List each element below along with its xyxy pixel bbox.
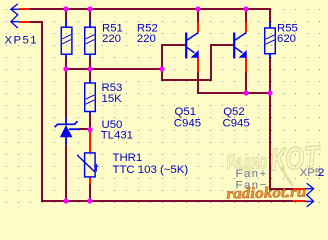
grid dots bbox=[6, 9, 320, 203]
wire Q52 base riser bbox=[210, 44, 212, 81]
wire lower base link bbox=[162, 79, 212, 81]
wire Q52 collector drop bbox=[245, 9, 247, 22]
svg-text:15K: 15K bbox=[102, 93, 123, 105]
wire U50 ref to node B bbox=[79, 128, 92, 130]
wire R51 top drop bbox=[65, 9, 67, 20]
wire XP51 pin2 to ground bbox=[30, 21, 42, 202]
svg-text:КОТ: КОТ bbox=[269, 139, 323, 178]
transistor Q52 bbox=[234, 33, 246, 59]
node rail-Q52c bbox=[243, 6, 248, 11]
svg-text:Радио: Радио bbox=[226, 150, 267, 174]
node gnd U50 bbox=[63, 198, 68, 203]
node emitter R55 bbox=[267, 90, 272, 95]
thermistor THR1 bbox=[77, 153, 98, 177]
wire U50 cathode top bbox=[65, 69, 67, 117]
svg-text:XP51: XP51 bbox=[5, 35, 38, 47]
wire R55 top drop bbox=[269, 8, 271, 22]
svg-text:Q52: Q52 bbox=[223, 106, 245, 118]
node rail-Q51c bbox=[195, 6, 200, 11]
svg-text:C945: C945 bbox=[223, 117, 250, 129]
wire emitter bus bbox=[197, 92, 271, 94]
pin stub Q51 emitter bbox=[197, 58, 199, 72]
wire top rail +12V bbox=[30, 8, 270, 10]
wire R55 bottom bbox=[269, 57, 271, 93]
svg-text:220: 220 bbox=[137, 33, 156, 45]
node A R51 bbox=[63, 66, 68, 71]
resistor R52 bbox=[85, 20, 96, 58]
pin stub XP51 pin1 bbox=[19, 8, 30, 10]
svg-text:THR1: THR1 bbox=[113, 152, 143, 164]
resistor R53 bbox=[85, 79, 96, 114]
svg-text:Q51: Q51 bbox=[175, 106, 197, 118]
svg-text:TL431: TL431 bbox=[101, 130, 133, 142]
wire Q51 collector drop bbox=[197, 9, 199, 22]
wire node A horizontal bbox=[65, 68, 163, 70]
node rail-R52 bbox=[87, 6, 92, 11]
svg-text:R53: R53 bbox=[102, 82, 123, 94]
node junction dots bbox=[63, 6, 272, 203]
wire Q52 emitter down bbox=[245, 72, 247, 94]
node A riser bbox=[159, 66, 164, 71]
node gnd THR1 bbox=[87, 198, 92, 203]
wire base riser bbox=[161, 44, 163, 81]
wire Fan+ drop bbox=[269, 92, 271, 190]
node B ref bbox=[87, 127, 92, 132]
pin stub Q52 emitter bbox=[245, 58, 247, 72]
resistor R51 bbox=[61, 20, 72, 58]
wire R52 bottom bbox=[89, 57, 91, 70]
pin stub XP52 pin2 bbox=[293, 200, 306, 202]
op-amp U50 TL431 shunt regulator bbox=[55, 117, 79, 145]
pin stub THR1 top bbox=[89, 131, 91, 153]
watermark radiokot bbox=[226, 139, 322, 186]
wire R52 top drop bbox=[89, 9, 91, 20]
connector XP51 bbox=[11, 4, 19, 28]
wire Q52 base bbox=[211, 44, 234, 46]
pin stub THR1 bottom bbox=[89, 177, 91, 184]
wire R53 top bbox=[89, 69, 91, 79]
svg-text:radiokot.ru: radiokot.ru bbox=[226, 183, 307, 202]
node rail-R51 bbox=[63, 6, 68, 11]
node emitter Q52 bbox=[243, 90, 248, 95]
wire U50 anode bottom bbox=[65, 145, 67, 202]
pin stub XP52 pin1 bbox=[293, 188, 306, 190]
node A R53 bbox=[87, 66, 92, 71]
wire R53 bottom to node B bbox=[89, 114, 91, 131]
wire ground rail bbox=[42, 200, 294, 202]
pin stub XP51 pin2 bbox=[19, 21, 30, 23]
wire R51 bottom bbox=[65, 57, 67, 70]
svg-text:220: 220 bbox=[102, 33, 121, 45]
resistor R55 bbox=[265, 22, 276, 58]
svg-text:TTC 103 (~5K): TTC 103 (~5K) bbox=[113, 164, 189, 176]
wire Fan+ horizontal bbox=[269, 188, 294, 190]
svg-text:620: 620 bbox=[277, 33, 296, 45]
wire THR1 bottom bbox=[89, 184, 91, 202]
connector XP52 bbox=[306, 183, 314, 207]
pin stub Q52 collector bbox=[245, 22, 247, 32]
wire Q51 emitter down bbox=[197, 72, 199, 94]
svg-text:C945: C945 bbox=[174, 117, 201, 129]
wire Q51 base bbox=[162, 44, 186, 46]
transistor Q51 bbox=[186, 33, 198, 59]
pin stub Q51 collector bbox=[197, 22, 199, 32]
